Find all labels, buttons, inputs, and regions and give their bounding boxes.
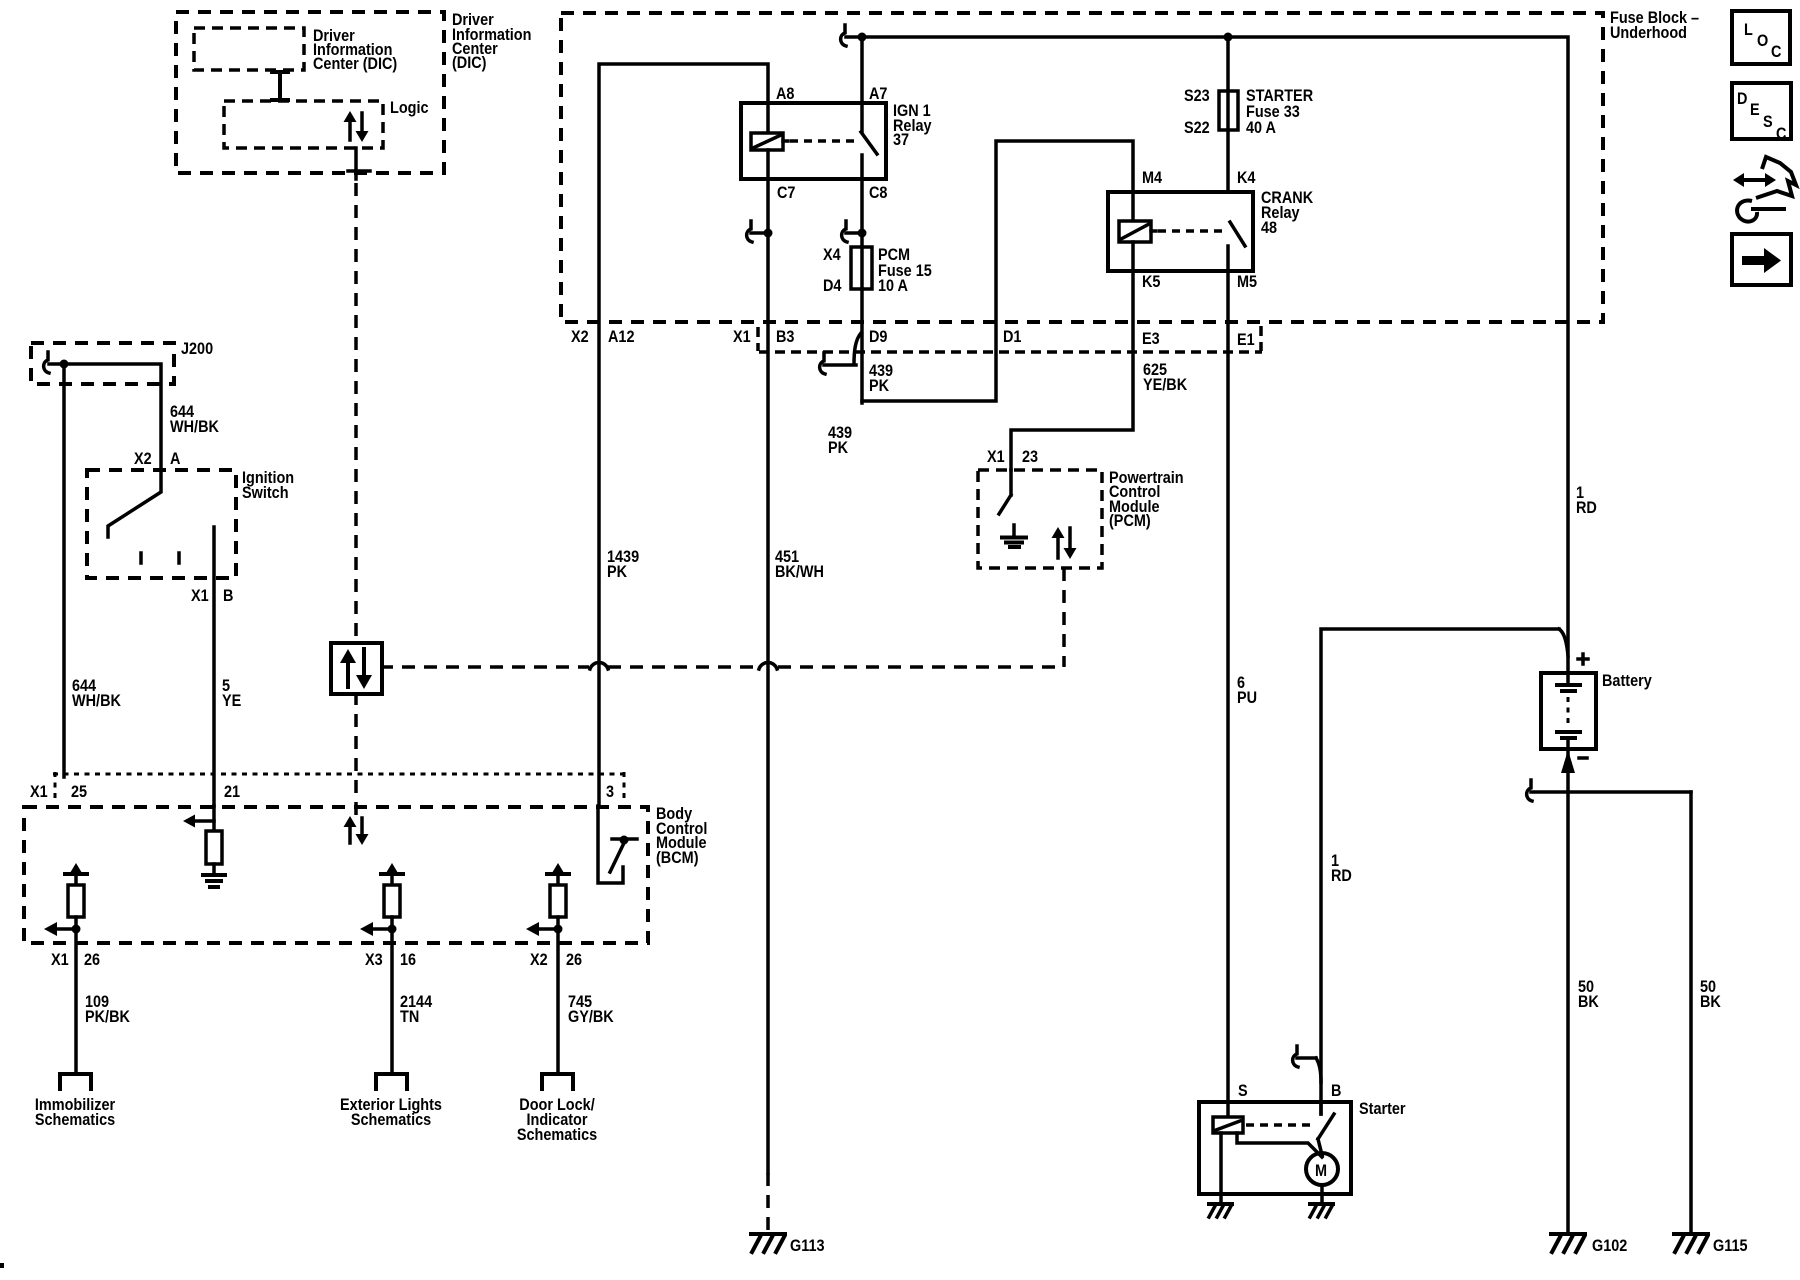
label Starter: [1359, 1100, 1406, 1118]
svg-text:TN: TN: [400, 1008, 419, 1026]
svg-text:K5: K5: [1142, 273, 1161, 291]
ground G102: [1551, 1234, 1585, 1252]
svg-text:25: 25: [71, 783, 87, 801]
svg-text:BK/WH: BK/WH: [775, 563, 824, 581]
svg-text:M4: M4: [1142, 169, 1162, 187]
svg-text:PK: PK: [607, 563, 628, 581]
svg-text:X1: X1: [30, 783, 48, 801]
svg-text:Switch: Switch: [242, 484, 289, 502]
BCM exterior lights driver: [360, 863, 403, 1073]
svg-text:Center (DIC): Center (DIC): [313, 55, 397, 73]
svg-text:26: 26: [566, 951, 582, 969]
label Logic: [390, 99, 429, 117]
wire 644 WH/BK to ignition switch: [64, 364, 161, 470]
wire 625 YE/BK: [1011, 271, 1133, 470]
svg-text:X1: X1: [987, 448, 1005, 466]
svg-text:E3: E3: [1142, 330, 1160, 348]
svg-text:A7: A7: [869, 85, 888, 103]
svg-text:RD: RD: [1331, 867, 1352, 885]
svg-text:L: L: [1744, 21, 1753, 39]
label X1 26: [51, 951, 100, 969]
svg-text:A8: A8: [776, 85, 795, 103]
svg-text:S22: S22: [1184, 119, 1210, 137]
labels C7 C8: [777, 184, 888, 202]
svg-text:Schematics: Schematics: [35, 1111, 115, 1129]
svg-text:PK: PK: [869, 377, 890, 395]
label 644 WH/BK left: [72, 677, 121, 710]
svg-text:C: C: [1771, 43, 1781, 61]
label 50 BK left: [1578, 978, 1599, 1011]
svg-text:WH/BK: WH/BK: [170, 418, 219, 436]
svg-text:J200: J200: [181, 340, 213, 358]
svg-text:X3: X3: [365, 951, 383, 969]
label CRANK Relay 48: [1261, 189, 1314, 237]
svg-text:S23: S23: [1184, 87, 1210, 105]
svg-text:D9: D9: [869, 328, 888, 346]
CRANK relay contact: [1158, 222, 1245, 271]
ground G113: [751, 1234, 785, 1252]
battery negative terminal: [1561, 750, 1575, 773]
label 1439 PK: [607, 548, 639, 581]
svg-text:X4: X4: [823, 246, 841, 264]
wire 5 YE: [212, 527, 216, 806]
label G115: [1713, 1237, 1748, 1255]
wire 644 WH/BK to BCM: [62, 364, 66, 777]
svg-text:X2: X2: [134, 450, 152, 468]
icon LOC box: [1732, 11, 1790, 64]
battery negative splice: [1527, 780, 1691, 801]
svg-text:S: S: [1763, 113, 1773, 131]
svg-text:BK: BK: [1578, 993, 1599, 1011]
Battery: [1541, 673, 1596, 749]
label 745 GY/BK: [568, 993, 614, 1026]
svg-text:M5: M5: [1237, 273, 1257, 291]
svg-text:(DIC): (DIC): [452, 54, 486, 72]
icon arrow box: [1732, 234, 1791, 285]
Starter box: [1199, 1102, 1351, 1194]
svg-text:37: 37: [893, 131, 909, 149]
label 1 RD lower: [1331, 852, 1352, 885]
PCM serial data arrows: [1052, 527, 1077, 559]
starter solenoid ground: [1209, 1204, 1232, 1217]
svg-text:C: C: [1776, 125, 1786, 143]
starter solenoid contact: [1246, 1102, 1334, 1155]
svg-text:PK/BK: PK/BK: [85, 1008, 130, 1026]
BCM door lock driver: [526, 863, 569, 1073]
label 644 WH/BK: [170, 403, 219, 436]
svg-text:Logic: Logic: [390, 99, 429, 117]
svg-text:X1: X1: [191, 587, 209, 605]
splice J200 box: [31, 343, 174, 384]
svg-text:Schematics: Schematics: [351, 1111, 431, 1129]
Fuse Block Underhood box: [561, 13, 1603, 322]
relay CRANK box: [1108, 192, 1253, 271]
svg-text:A: A: [170, 450, 180, 468]
label Fuse Block Underhood: [1610, 9, 1699, 42]
starter motor feed wires: [1237, 1133, 1322, 1157]
svg-text:Battery: Battery: [1602, 672, 1652, 690]
wire 6 PU: [1226, 271, 1230, 1119]
label STARTER Fuse 33 40 A: [1246, 87, 1314, 137]
label Immobilizer Schematics: [35, 1096, 115, 1129]
svg-text:B: B: [223, 587, 233, 605]
svg-text:RD: RD: [1576, 499, 1597, 517]
label G113: [790, 1237, 825, 1255]
starter motor ground: [1310, 1204, 1333, 1217]
label X3 16: [365, 951, 416, 969]
svg-text:B: B: [1331, 1082, 1341, 1100]
svg-text:BK: BK: [1700, 993, 1721, 1011]
BCM pin labels X1 25 21 3: [30, 783, 614, 801]
svg-text:A12: A12: [608, 328, 635, 346]
svg-text:(BCM): (BCM): [656, 849, 699, 867]
label 2144 TN: [400, 993, 432, 1026]
Body Control Module box: [24, 807, 648, 943]
svg-text:D1: D1: [1003, 328, 1022, 346]
splice on C8 wire: [842, 221, 867, 242]
BCM pin 21 ground: [203, 864, 225, 887]
svg-text:E1: E1: [1237, 331, 1255, 349]
label 439 PK at D9: [869, 362, 893, 395]
svg-text:M: M: [1315, 1162, 1327, 1180]
label J200: [181, 340, 213, 358]
relay IGN 1 box: [741, 103, 886, 179]
serial data wire to PCM (dashed, with hops): [380, 568, 1064, 669]
BCM pin 3 switch: [598, 806, 637, 883]
immobilizer off-page connector: [60, 1074, 91, 1089]
label 1 RD upper: [1576, 484, 1597, 517]
svg-text:G113: G113: [790, 1237, 825, 1255]
labels K5 M5: [1142, 273, 1257, 291]
page speck: [0, 1263, 4, 1268]
serial data wire DIC to interface (dashed): [354, 183, 358, 643]
fuse block X1 connector bracket: [758, 326, 1262, 352]
svg-text:C8: C8: [869, 184, 888, 202]
label Ignition Switch: [242, 469, 294, 502]
label 109 PK/BK: [85, 993, 130, 1026]
serial data wire to BCM (dashed): [354, 692, 358, 815]
svg-text:PK: PK: [828, 439, 849, 457]
svg-text:PU: PU: [1237, 689, 1257, 707]
DIC logic serial-data arrows: [344, 111, 369, 142]
DIC display box: [194, 28, 304, 70]
BCM pin 21 resistor: [206, 831, 222, 864]
ignition switch contact lever: [108, 470, 161, 537]
wire 50 BK left: [1566, 749, 1570, 1232]
label Door Lock Indicator Schematics: [517, 1096, 597, 1144]
label 625 YE/BK: [1143, 361, 1188, 394]
label 439 PK lower: [828, 424, 852, 457]
svg-text:C7: C7: [777, 184, 796, 202]
ground G113 dashed tail: [766, 1173, 770, 1234]
svg-text:K4: K4: [1237, 169, 1256, 187]
splice on starter B wire: [1293, 1046, 1321, 1082]
IGN1 relay coil: [751, 103, 788, 179]
svg-text:GY/BK: GY/BK: [568, 1008, 614, 1026]
svg-text:D: D: [1737, 90, 1747, 108]
BCM connector pin row: [53, 772, 626, 803]
starter solenoid coil: [1213, 1117, 1243, 1133]
splice on C7 wire: [747, 221, 773, 242]
Ignition Switch box: [87, 470, 236, 578]
labels X4 D4: [823, 246, 842, 295]
Driver Information Center (DIC) outer box: [176, 12, 444, 173]
svg-text:48: 48: [1261, 219, 1277, 237]
battery plus mark: [1578, 654, 1588, 664]
svg-text:21: 21: [224, 783, 240, 801]
svg-text:26: 26: [84, 951, 100, 969]
svg-text:WH/BK: WH/BK: [72, 692, 121, 710]
svg-text:YE/BK: YE/BK: [1143, 376, 1188, 394]
icon DESC box: [1732, 83, 1791, 143]
fuse block bottom connector labels: [571, 328, 1255, 349]
label 6 PU: [1237, 674, 1257, 707]
wire 451 BK/WH: [766, 179, 770, 1173]
icon harness squiggle: [1733, 157, 1796, 222]
wire to IGN1 relay pin A7: [862, 37, 888, 103]
serial data interface box: [331, 643, 382, 694]
Powertrain Control Module box: [978, 470, 1102, 568]
label Battery: [1602, 672, 1652, 690]
BCM immobilizer driver: [44, 863, 87, 1073]
label PCM Fuse 15 10 A: [878, 246, 932, 295]
svg-text:3: 3: [606, 783, 614, 801]
svg-text:10 A: 10 A: [878, 277, 908, 295]
svg-text:G115: G115: [1713, 1237, 1748, 1255]
label Exterior Lights Schematics: [340, 1096, 442, 1129]
svg-text:D4: D4: [823, 277, 842, 295]
svg-text:X1: X1: [51, 951, 69, 969]
label Driver Information Center (DIC) right: [452, 11, 531, 72]
PCM internal ground: [1002, 525, 1026, 547]
PCM internal switch: [999, 470, 1011, 514]
DIC logic box: [224, 101, 383, 148]
svg-text:Starter: Starter: [1359, 1100, 1406, 1118]
J200 junction: [49, 360, 69, 369]
DIC internal link bar: [272, 72, 288, 100]
label Driver Information Center (DIC) inner: [313, 27, 397, 73]
svg-text:YE: YE: [222, 692, 241, 710]
svg-text:Schematics: Schematics: [517, 1126, 597, 1144]
svg-text:B3: B3: [776, 328, 795, 346]
labels S B: [1238, 1082, 1341, 1100]
svg-text:X1: X1: [733, 328, 751, 346]
BCM serial data arrows: [344, 816, 369, 845]
labels M4 K4: [1142, 169, 1256, 187]
starter solenoid ground wire: [1219, 1133, 1223, 1203]
label Powertrain Control Module (PCM): [1109, 469, 1184, 530]
wire 1 RD starter branch: [1321, 629, 1568, 1114]
starter motor: [1306, 1153, 1338, 1185]
door lock off-page connector: [542, 1074, 573, 1089]
battery minus mark: [1579, 756, 1587, 760]
svg-text:G102: G102: [1592, 1237, 1628, 1255]
IGN1 relay contact: [790, 103, 877, 179]
svg-text:16: 16: [400, 951, 416, 969]
ignition switch position marks: [141, 553, 179, 563]
fuse STARTER Fuse 33 40 A: [1219, 37, 1238, 192]
svg-text:23: 23: [1022, 448, 1038, 466]
svg-text:40 A: 40 A: [1246, 119, 1276, 137]
svg-text:X2: X2: [571, 328, 589, 346]
labels S23 S22: [1184, 87, 1210, 137]
CRANK relay coil: [1119, 192, 1156, 271]
label PCM connector X1 23: [987, 448, 1038, 466]
svg-text:(PCM): (PCM): [1109, 512, 1151, 530]
svg-text:Underhood: Underhood: [1610, 24, 1687, 42]
label Body Control Module (BCM): [656, 805, 707, 867]
wire 439 PK: [854, 141, 1133, 403]
svg-text:E: E: [1750, 101, 1760, 119]
wire 1439 PK feed and pin A8: [599, 64, 795, 806]
battery positive bus wire: [841, 25, 1568, 673]
label connector X2 A: [134, 450, 180, 468]
svg-text:X2: X2: [530, 951, 548, 969]
label 50 BK right: [1700, 978, 1721, 1011]
label G102: [1592, 1237, 1628, 1255]
label IGN 1 Relay 37: [893, 102, 932, 149]
splice on 439 PK wire: [820, 353, 856, 374]
svg-text:O: O: [1757, 32, 1768, 50]
label 5 YE: [222, 677, 241, 710]
label 451 BK/WH: [775, 548, 824, 581]
svg-text:S: S: [1238, 1082, 1248, 1100]
ground G115: [1674, 1234, 1708, 1252]
fuse PCM Fuse 15 10 A: [851, 179, 872, 289]
BCM pin 21 input arrow: [183, 806, 214, 831]
exterior lights off-page connector: [376, 1074, 407, 1089]
J200 clip: [44, 352, 49, 373]
label X2 26: [530, 951, 582, 969]
label connector X1 B: [191, 587, 233, 605]
wire 50 BK right: [1689, 792, 1693, 1232]
DIC logic output stub: [348, 148, 370, 179]
starter motor ground wire: [1320, 1185, 1324, 1203]
